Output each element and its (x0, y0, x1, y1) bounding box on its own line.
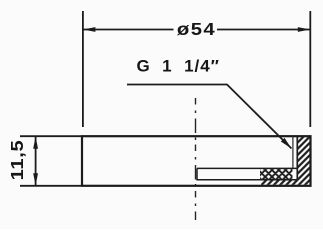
sectioned cap wall hatch (L-shape right wall and bottom lip) (261, 137, 310, 185)
arrowhead dia54 right (298, 27, 311, 32)
leader line for thread label (127, 85, 292, 149)
part outline (cap cross-section rectangle) (82, 136, 311, 186)
svg-text:G 1 1/4″: G 1 1/4″ (137, 56, 220, 75)
dimension line dia 54 left segment (83, 29, 174, 31)
sectioned gasket cross-hatch (260, 169, 293, 179)
thread major-diameter thin line (292, 137, 294, 168)
extension line bottom (11,5) (20, 185, 81, 187)
arrowhead dia54 left (83, 27, 96, 32)
extension line right (dia 54) (309, 11, 311, 127)
leader arrowhead (281, 138, 292, 149)
gasket top line (197, 167, 297, 169)
svg-text:ø54: ø54 (177, 20, 216, 39)
arrowhead 11,5 bottom (33, 173, 38, 186)
gasket bottom line (197, 179, 297, 181)
dimension line dia 54 right segment (217, 29, 310, 31)
extension line left (dia 54) (82, 11, 84, 127)
bore line (hatch boundary) (296, 137, 298, 180)
gasket left edge (196, 168, 198, 180)
arrowhead 11,5 top (33, 136, 38, 149)
centerline (vertical dash-dot axis) (195, 98, 197, 220)
extension line top (11,5) (20, 135, 81, 137)
dimension line 11,5 (35, 136, 37, 186)
svg-text:11,5: 11,5 (8, 140, 28, 181)
